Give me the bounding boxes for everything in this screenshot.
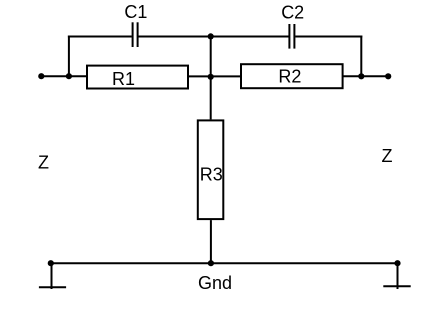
wire: top rail, C1 to center junction <box>138 36 210 38</box>
wire: R1 left lead <box>69 75 87 77</box>
wire: top rail, C2 to right riser <box>295 36 362 38</box>
svg-text:C1: C1 <box>124 2 147 22</box>
svg-text:Z: Z <box>38 152 49 172</box>
resistor R1 <box>87 66 188 89</box>
node: right output terminal <box>385 73 391 79</box>
wire: R2 left lead <box>211 75 241 77</box>
capacitor C2 <box>289 24 294 49</box>
capacitor C1 <box>133 22 138 47</box>
node: junction of left riser and middle wire <box>66 73 72 79</box>
node: left input terminal <box>38 73 44 79</box>
wire: R3 bottom lead to ground rail <box>210 220 212 263</box>
node: right junction of riser and middle wire <box>358 73 364 79</box>
node: ground rail right end <box>394 260 400 266</box>
wire: output lead to right terminal <box>361 75 388 77</box>
svg-text:C2: C2 <box>281 2 304 22</box>
node: ground rail left end <box>48 260 54 266</box>
resistor R2 <box>241 64 343 88</box>
wire: top rail, left segment to C1 <box>68 36 132 38</box>
node: ground rail center junction <box>208 260 214 266</box>
wire: input lead from left terminal to left junction <box>41 75 69 77</box>
wire: R2 right lead <box>343 75 361 77</box>
wire: ground rail <box>51 262 398 264</box>
svg-text:R3: R3 <box>200 165 223 185</box>
wire: center vertical, middle junction to R3 <box>210 77 212 120</box>
wire: top rail, center junction to C2 <box>211 36 289 38</box>
wire: left vertical riser <box>68 36 70 77</box>
svg-text:Z: Z <box>382 146 393 166</box>
svg-text:R2: R2 <box>278 67 301 87</box>
node: top center junction <box>208 33 214 39</box>
svg-text:Gnd: Gnd <box>198 273 232 293</box>
wire: right vertical riser <box>360 36 362 77</box>
ground symbol left <box>39 263 66 289</box>
node: center middle junction <box>208 74 214 80</box>
wire: R1 right lead <box>188 75 211 77</box>
ground symbol right <box>383 263 410 289</box>
resistor R3 <box>198 120 224 219</box>
wire: center vertical, top rail to middle junction <box>210 37 212 77</box>
svg-text:R1: R1 <box>112 69 135 89</box>
